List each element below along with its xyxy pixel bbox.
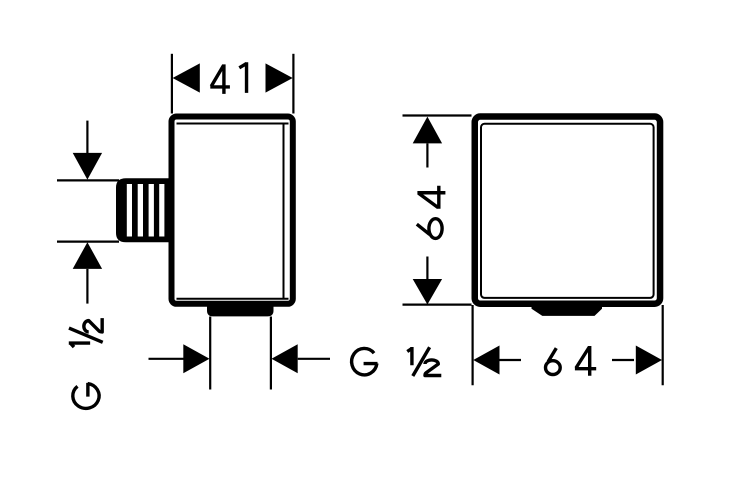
outlet dim: left-pointing arrow bbox=[272, 344, 298, 373]
thread stripe 4 bbox=[159, 184, 164, 237]
outlet dim: right-pointing arrow bbox=[183, 344, 209, 373]
dim 64 vertical: bottom extension line bbox=[403, 304, 472, 306]
bottom outlet stub (side view) bbox=[207, 302, 274, 316]
threaded inlet G1/2 (hatched, side view) bbox=[116, 178, 172, 242]
dim 64 horizontal: left arrow bbox=[473, 346, 499, 375]
dim 64 vertical: upper stem bbox=[426, 143, 428, 167]
dim 64 horizontal: left extension line bbox=[472, 305, 474, 385]
thread dim: bottom extension line bbox=[57, 241, 119, 243]
dim 64 vertical: up arrow bbox=[413, 117, 442, 144]
dim 64 horizontal: right arrow bbox=[636, 346, 662, 375]
face plate inner edge outline (front view) bbox=[481, 124, 654, 298]
dim 41: left extension line bbox=[171, 54, 173, 114]
dim 64 horizontal: right extension line bbox=[662, 305, 664, 385]
dim 64 horizontal: right stem bbox=[612, 359, 634, 361]
dim 64 vertical: down arrow bbox=[413, 279, 442, 305]
label 1/2 (rotated) bbox=[69, 318, 103, 347]
thread stripe 3 bbox=[149, 184, 154, 237]
thread dim: up arrow bbox=[73, 242, 102, 269]
dim 64 horizontal: label "64" bbox=[546, 348, 561, 374]
outlet dim: right extension line bbox=[270, 317, 272, 390]
dim 64 vertical: top extension line bbox=[403, 114, 472, 116]
bottom outlet stub (front view) bbox=[532, 302, 602, 315]
thread dim: lower stem bbox=[86, 269, 88, 304]
wall outlet body (side view) bbox=[172, 117, 293, 304]
label G (rotated) bbox=[73, 383, 99, 409]
face plate inner edge lines (side view) bbox=[177, 124, 289, 299]
thread stripe 2 bbox=[138, 184, 143, 237]
dim 41: label "41" bbox=[210, 64, 230, 94]
outlet dim: left extension line bbox=[209, 317, 211, 390]
outlet dim: left stem bbox=[149, 358, 185, 360]
dim 41: right extension line bbox=[292, 54, 294, 114]
outlet dim: label G bbox=[352, 348, 378, 374]
thread dim: upper stem bbox=[86, 121, 88, 154]
dim 64 horizontal: left stem bbox=[500, 359, 522, 361]
dim 41: right arrow bbox=[266, 63, 293, 92]
thread stripe 1 bbox=[127, 184, 132, 237]
outlet dim: right stem bbox=[298, 358, 330, 360]
dim 64 vertical: label "64" (rotated) bbox=[417, 219, 442, 239]
dim 64 vertical: lower stem bbox=[426, 257, 428, 280]
thread dim: down arrow bbox=[73, 153, 102, 180]
dim 41: left arrow bbox=[173, 63, 200, 92]
outlet dim: label 1/2 bbox=[407, 347, 441, 376]
thread dim: top extension line bbox=[57, 179, 119, 181]
face plate front view (square) bbox=[475, 117, 660, 304]
